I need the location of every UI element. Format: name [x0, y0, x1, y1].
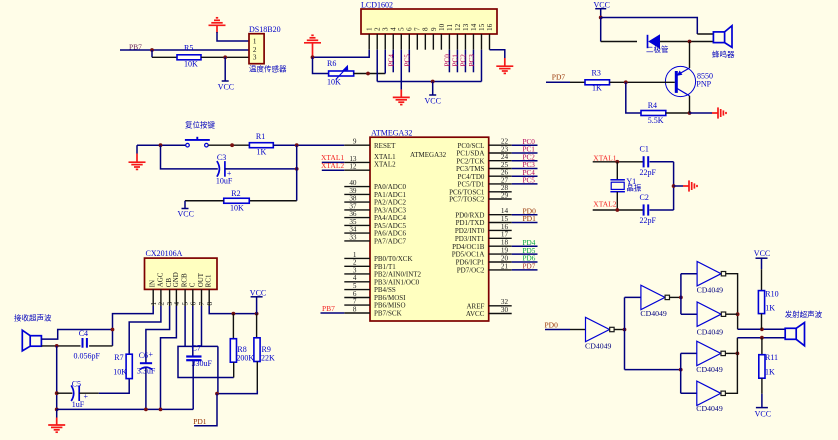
svg-text:29: 29: [501, 191, 509, 199]
svg-text:+: +: [149, 350, 154, 359]
wire CX pin8 to VCC bus: [209, 306, 258, 316]
svg-text:4: 4: [173, 302, 181, 306]
svg-text:7: 7: [414, 27, 422, 31]
power VCC (reset): [178, 201, 224, 219]
wire R6 to LCD pin3: [354, 72, 386, 76]
svg-text:PD4/OC1B: PD4/OC1B: [452, 243, 485, 251]
wire lower branch to pair: [625, 368, 683, 372]
svg-text:14: 14: [501, 207, 509, 215]
svg-text:C7: C7: [192, 344, 201, 353]
svg-text:DS18B20: DS18B20: [249, 25, 281, 34]
svg-text:PC2/TCK: PC2/TCK: [456, 157, 484, 165]
ground (below LCD): [393, 97, 410, 104]
wire button to R1: [208, 143, 249, 147]
wire ground to button: [137, 143, 186, 147]
resistor R9 22K: [254, 314, 275, 391]
svg-text:VCC: VCC: [755, 410, 771, 419]
node XTAL1 (chip): [321, 153, 344, 162]
svg-text:RC1: RC1: [205, 274, 213, 287]
power VCC (LCD): [425, 82, 441, 106]
svg-text:蜂鸣器: 蜂鸣器: [712, 49, 735, 59]
wire rail to R2: [249, 200, 296, 202]
svg-text:PA6/ADC6: PA6/ADC6: [374, 230, 407, 238]
svg-text:VCC: VCC: [178, 210, 194, 219]
svg-text:PD7: PD7: [523, 263, 536, 271]
svg-text:3: 3: [253, 54, 257, 62]
wire to inverter 4: [681, 313, 697, 315]
svg-text:PC0/SCL: PC0/SCL: [458, 142, 485, 150]
wire to inverter 3: [681, 273, 697, 275]
svg-text:10K: 10K: [230, 204, 244, 213]
svg-text:10uF: 10uF: [216, 177, 233, 186]
wire C5 to R7 bottom: [79, 379, 129, 394]
resistor R7 10K: [113, 353, 132, 379]
node PC3 (LCD pin14): [468, 50, 476, 73]
wire upper outputs to speaker top: [738, 327, 786, 331]
IC U1 ATMEGA32: [370, 128, 489, 321]
LCD pin stubs: [369, 34, 489, 50]
resistor R1 1K: [249, 132, 273, 157]
wire to inverter 5: [681, 352, 697, 354]
svg-text:21: 21: [501, 262, 509, 270]
svg-text:24: 24: [501, 153, 509, 161]
wire left branch down to C3: [161, 145, 218, 169]
svg-text:PB0/T0/XCK: PB0/T0/XCK: [374, 255, 413, 263]
power VCC (DS18B20): [218, 57, 234, 91]
wire inverter1 output: [614, 328, 626, 332]
capacitor C5 1uF: [57, 379, 89, 409]
svg-text:PD7/OC2: PD7/OC2: [457, 267, 485, 275]
wire LCD pin16 to ground: [490, 50, 505, 66]
wire CX pin4 to ground bus: [161, 306, 177, 409]
node XTAL1 (crystal): [593, 153, 616, 162]
ground (above DS18B20): [209, 18, 226, 33]
svg-text:XTAL2: XTAL2: [321, 161, 344, 170]
wire ground to DS18B20 pin1: [217, 32, 249, 41]
wire R9 to PD1 junction: [215, 391, 257, 396]
capacitor C3 10uF: [216, 153, 233, 186]
node PD7 (to R3): [546, 73, 585, 83]
IC LCD1602: [361, 1, 497, 35]
svg-text:7: 7: [353, 298, 357, 306]
wire PB7 to pin2: [120, 48, 249, 52]
svg-text:温度传感器: 温度传感器: [249, 64, 287, 74]
svg-text:6: 6: [406, 27, 414, 31]
svg-text:C3: C3: [217, 153, 226, 162]
inverter U4 CD4049 (top): [697, 262, 726, 295]
capacitor C2 22pF: [640, 193, 657, 225]
svg-text:13: 13: [462, 23, 470, 31]
wire buzzer junction to transistor: [689, 42, 691, 69]
svg-text:5: 5: [353, 282, 357, 290]
svg-text:PB6/MISO: PB6/MISO: [374, 302, 406, 310]
svg-text:34: 34: [349, 226, 357, 234]
buzzer (feng ming qi): [712, 26, 735, 59]
svg-text:16: 16: [486, 23, 494, 31]
ground bus: [57, 408, 194, 412]
wire lower pair input rail: [680, 353, 682, 393]
pushbutton: [185, 137, 210, 147]
svg-text:5: 5: [398, 27, 406, 31]
wire CX pin2 to R7: [129, 306, 161, 354]
wire C7 to ground bus: [192, 361, 194, 409]
inverter U2 CD4049: [585, 317, 614, 350]
svg-text:PC0: PC0: [444, 54, 452, 67]
wire R1 to RESET pin: [273, 143, 344, 147]
svg-text:1uF: 1uF: [72, 400, 85, 409]
label jie shou chao sheng bo (receiver): [14, 313, 52, 323]
wire left rail down: [55, 346, 59, 411]
svg-text:PD3/INT1: PD3/INT1: [455, 235, 485, 243]
svg-text:PB4/SS: PB4/SS: [374, 286, 396, 294]
wire LCD pin3: [384, 50, 386, 74]
node PB7 (chip pin 8): [321, 304, 345, 313]
label fa she chao sheng bo (transmitter): [785, 309, 823, 319]
svg-text:PD2/INT0: PD2/INT0: [455, 227, 485, 235]
svg-text:XTAL2: XTAL2: [374, 161, 396, 169]
svg-text:330uF: 330uF: [192, 359, 213, 368]
wire inverter5 output: [725, 352, 739, 356]
capacitor C1 22pF: [640, 145, 657, 178]
inverter U5 CD4049: [697, 302, 726, 336]
wire CX pin3 to C6: [146, 306, 170, 363]
svg-text:18: 18: [501, 239, 509, 247]
node PC2 (LCD pin13): [460, 50, 468, 73]
svg-text:CX20106A: CX20106A: [146, 249, 183, 258]
wire LCD pin2 to VCC bus: [376, 50, 378, 82]
svg-text:XTAL2: XTAL2: [593, 200, 616, 209]
svg-text:PA7/ADC7: PA7/ADC7: [374, 238, 407, 246]
right rail of crystal: [672, 162, 676, 210]
svg-text:9: 9: [353, 138, 357, 146]
ground (right of R4, sideways): [712, 107, 726, 118]
speaker (ultrasonic receiver): [22, 330, 41, 351]
svg-text:R5: R5: [184, 44, 193, 53]
svg-text:PD0: PD0: [545, 320, 559, 329]
speaker (ultrasonic transmitter): [785, 323, 804, 346]
svg-text:XTAL1: XTAL1: [593, 153, 616, 162]
VCC bus under LCD: [377, 80, 481, 84]
svg-text:C2: C2: [640, 193, 649, 202]
svg-text:AGC: AGC: [156, 272, 164, 287]
svg-text:10K: 10K: [327, 78, 341, 87]
svg-text:4: 4: [353, 274, 357, 282]
svg-text:PC1: PC1: [452, 54, 460, 67]
inverter U3 CD4049: [640, 285, 669, 318]
resistor R8 200K: [230, 314, 254, 378]
svg-text:1K: 1K: [592, 84, 602, 93]
wire C6 to ground bus: [145, 368, 147, 410]
svg-text:17: 17: [501, 231, 509, 239]
svg-text:4: 4: [390, 27, 398, 31]
transistor Q 8550 PNP: [665, 66, 713, 96]
svg-text:R2: R2: [231, 189, 240, 198]
wire right rail down: [296, 145, 298, 201]
svg-text:GND: GND: [172, 272, 180, 287]
wire C4 right to staircase: [89, 345, 112, 347]
wire R5 to pin3: [201, 55, 249, 59]
svg-text:接收超声波: 接收超声波: [14, 313, 52, 323]
svg-text:PD6: PD6: [523, 255, 536, 263]
svg-text:1K: 1K: [765, 368, 775, 377]
svg-text:19: 19: [501, 247, 509, 255]
svg-text:R3: R3: [592, 69, 601, 78]
svg-text:XTAL1: XTAL1: [374, 153, 396, 161]
svg-text:CD4049: CD4049: [697, 327, 724, 336]
wire ground junction down to R6: [313, 57, 329, 73]
node PB7: [129, 43, 142, 52]
IC DS18B20 temperature sensor: [249, 25, 287, 74]
svg-text:LCD1602: LCD1602: [361, 1, 393, 10]
svg-text:10K: 10K: [113, 368, 127, 377]
svg-text:VCC: VCC: [425, 97, 441, 106]
svg-text:PC7/TOSC2: PC7/TOSC2: [449, 196, 485, 204]
power VCC (R10): [754, 249, 770, 290]
svg-text:PD6/ICP1: PD6/ICP1: [456, 259, 485, 267]
svg-text:PC5: PC5: [404, 54, 412, 67]
svg-text:11: 11: [446, 24, 454, 31]
svg-text:R7: R7: [114, 353, 123, 362]
inverter U6 CD4049: [696, 341, 725, 374]
wire inverter3 output down: [726, 274, 740, 330]
svg-text:1: 1: [366, 27, 374, 31]
svg-text:PD5: PD5: [523, 247, 536, 255]
svg-text:40: 40: [349, 179, 357, 187]
wire collector down: [689, 96, 691, 113]
svg-text:PB7/SCK: PB7/SCK: [374, 310, 402, 318]
svg-text:C5: C5: [72, 379, 81, 388]
IC CX20106A: [145, 249, 218, 289]
resistor R2 10K: [224, 189, 250, 213]
resistor R5 10K: [177, 44, 201, 69]
svg-text:PD4: PD4: [523, 239, 536, 247]
resistor R10 1K: [758, 290, 778, 330]
svg-text:27: 27: [501, 176, 509, 184]
wire inverter2 output: [670, 296, 683, 300]
ATMEGA32 right pin stubs, numbers and net labels: [449, 138, 537, 319]
ground (crystal, sideways): [683, 180, 697, 191]
wire to right ground: [690, 112, 713, 114]
node XTAL2 (crystal): [593, 200, 616, 209]
svg-text:6: 6: [189, 302, 197, 306]
output loop wires: [178, 346, 234, 393]
label fu wei an jian (reset button): [185, 120, 215, 130]
svg-text:1K: 1K: [257, 148, 267, 157]
svg-text:PD1/TXD: PD1/TXD: [456, 219, 485, 227]
svg-text:R1: R1: [256, 132, 265, 141]
capacitor C6 3.3uF: [137, 350, 156, 375]
resistor R3 1K: [585, 69, 610, 93]
svg-text:33: 33: [349, 233, 357, 241]
svg-text:ATMEGA32: ATMEGA32: [410, 151, 447, 159]
svg-text:PA2/ADC2: PA2/ADC2: [374, 199, 407, 207]
node XTAL2 (chip): [321, 161, 344, 170]
svg-text:15: 15: [478, 23, 486, 31]
wire CX pin6 to C7: [192, 306, 194, 356]
wire lower outputs to speaker bottom: [737, 336, 785, 340]
svg-text:PC5: PC5: [523, 177, 536, 185]
wire VCC down to diode: [601, 18, 637, 42]
wire CX pin7 to loop: [201, 306, 203, 346]
power VCC (R11): [755, 378, 771, 418]
svg-text:PA4/ADC4: PA4/ADC4: [374, 214, 407, 222]
resistor R4 5.5K: [641, 101, 666, 125]
svg-text:14: 14: [470, 23, 478, 31]
svg-text:1: 1: [253, 38, 257, 46]
wire C1 to right rail: [650, 161, 674, 163]
svg-text:CD4049: CD4049: [640, 309, 667, 318]
svg-text:1: 1: [353, 251, 357, 259]
svg-text:VCC: VCC: [754, 249, 770, 258]
wire to crystal ground: [674, 185, 683, 187]
svg-text:PC4: PC4: [388, 54, 396, 67]
svg-text:10: 10: [438, 23, 446, 31]
svg-text:PD1: PD1: [523, 214, 537, 223]
potentiometer R6 10K: [327, 59, 354, 87]
wire R3 to base: [610, 80, 675, 84]
wire C2 to right rail: [650, 209, 674, 211]
inverter U7 CD4049 (bottom): [696, 381, 725, 413]
svg-text:22: 22: [501, 138, 509, 146]
svg-text:PC3: PC3: [468, 54, 476, 67]
svg-text:5.5K: 5.5K: [648, 116, 664, 125]
power VCC (CX20106A): [250, 288, 266, 313]
ground (right of LCD): [496, 66, 513, 73]
svg-text:PD0/RXD: PD0/RXD: [455, 211, 484, 219]
CX20106A pin stubs and numbers: [150, 289, 214, 306]
svg-text:VCC: VCC: [218, 83, 234, 92]
wire R4 to collector: [666, 111, 692, 115]
svg-text:22pF: 22pF: [640, 216, 657, 225]
wire CX pin1 staircase to speaker top: [41, 306, 153, 346]
wire speaker bottom to C4: [41, 344, 80, 348]
svg-text:PC2: PC2: [460, 54, 468, 67]
svg-text:15: 15: [501, 215, 509, 223]
svg-text:2: 2: [374, 27, 382, 31]
svg-text:22K: 22K: [261, 354, 275, 363]
ground (CX area): [48, 409, 65, 432]
svg-text:2: 2: [158, 302, 166, 306]
svg-text:20: 20: [501, 254, 509, 262]
node PD1: [193, 394, 217, 426]
svg-text:PD5/OC1A: PD5/OC1A: [452, 251, 485, 259]
node PC1 (LCD pin12): [452, 50, 460, 73]
ATMEGA32 left pin stubs and numbers: [344, 138, 421, 318]
svg-text:VCC: VCC: [250, 288, 266, 297]
svg-text:C1: C1: [640, 145, 649, 154]
svg-text:二极管: 二极管: [646, 44, 669, 54]
svg-text:PC2: PC2: [523, 153, 536, 161]
svg-text:C6: C6: [139, 351, 148, 360]
wire LCD pin1 to ground: [311, 50, 370, 59]
svg-text:CD4049: CD4049: [696, 404, 723, 413]
wire XTAL1 row: [593, 160, 644, 164]
capacitor C4 0.056pF: [74, 329, 101, 360]
svg-text:12: 12: [349, 163, 357, 171]
node PC0 (LCD pin11): [444, 50, 452, 73]
wire junction drop: [152, 50, 177, 57]
svg-text:发射超声波: 发射超声波: [785, 309, 823, 319]
svg-text:PC0: PC0: [523, 138, 536, 146]
wire splitter vertical: [624, 297, 626, 369]
svg-text:PA0/ADC0: PA0/ADC0: [374, 183, 407, 191]
svg-text:ATMEGA32: ATMEGA32: [371, 128, 412, 137]
diode (er ji guan): [646, 34, 669, 54]
svg-text:36: 36: [349, 210, 357, 218]
wire to inverter 2: [625, 296, 641, 298]
svg-text:PB7: PB7: [322, 304, 335, 313]
svg-text:CD4049: CD4049: [696, 365, 723, 374]
svg-text:CD4049: CD4049: [585, 342, 612, 351]
wire LCD pin15 to VCC bus: [480, 50, 482, 82]
svg-text:3: 3: [353, 266, 357, 274]
svg-text:8: 8: [422, 27, 430, 31]
svg-text:R11: R11: [765, 353, 778, 362]
svg-text:38: 38: [349, 195, 357, 203]
svg-text:C4: C4: [79, 329, 88, 338]
wire diode to junction: [660, 40, 713, 44]
svg-text:R10: R10: [765, 290, 778, 299]
wire C3 to right rail: [225, 167, 299, 171]
svg-text:12: 12: [454, 23, 462, 31]
wire VCC to buzzer top: [601, 18, 714, 35]
capacitor C7 330uF: [186, 344, 212, 369]
svg-text:22pF: 22pF: [640, 168, 657, 177]
wire PD0 to inverter 1: [545, 329, 586, 331]
svg-text:3: 3: [382, 27, 390, 31]
svg-text:13: 13: [349, 155, 357, 163]
svg-text:CD4049: CD4049: [697, 286, 724, 295]
wire inverter6 output up: [725, 338, 737, 394]
wire CX pin5 to loop: [184, 306, 186, 346]
svg-text:PB2/AIN0/INT2: PB2/AIN0/INT2: [374, 271, 422, 279]
svg-text:晶振: 晶振: [626, 183, 641, 193]
node PC5 (LCD pin6): [404, 50, 412, 73]
svg-text:8: 8: [206, 302, 214, 306]
svg-text:30: 30: [501, 306, 509, 314]
svg-text:复位按键: 复位按键: [185, 120, 215, 130]
wire to inverter 6: [681, 392, 697, 394]
svg-text:0.056pF: 0.056pF: [74, 351, 101, 360]
svg-text:PB3/AIN1/OC0: PB3/AIN1/OC0: [374, 278, 420, 286]
svg-text:PD1: PD1: [193, 417, 207, 426]
wire base junction down to R4: [626, 82, 641, 113]
ground (reset): [129, 145, 146, 169]
wire XTAL2 row: [593, 208, 644, 212]
svg-text:R6: R6: [327, 59, 336, 68]
svg-text:PC5/TD1: PC5/TD1: [458, 181, 485, 189]
svg-text:PNP: PNP: [696, 80, 711, 89]
svg-text:R4: R4: [648, 101, 657, 110]
wire LCD pin5 to ground: [400, 50, 402, 98]
node PC4 (LCD pin4): [388, 50, 396, 73]
svg-text:10K: 10K: [184, 60, 198, 69]
svg-text:16: 16: [501, 223, 509, 231]
svg-text:200K: 200K: [236, 354, 254, 363]
svg-text:1K: 1K: [765, 304, 775, 313]
svg-text:C: C: [188, 282, 196, 287]
crystal Y1: [610, 162, 641, 210]
ground (left of LCD): [304, 35, 321, 57]
svg-text:8: 8: [353, 305, 357, 313]
resistor R11 1K: [759, 338, 778, 379]
svg-text:RESET: RESET: [374, 142, 396, 150]
svg-text:PD7: PD7: [552, 73, 566, 82]
wire upper pair input rail: [680, 274, 682, 315]
node PD0 (chip area, to CD4049): [545, 320, 559, 329]
wire inverter4 output: [726, 313, 738, 315]
power VCC (buzzer): [594, 1, 610, 20]
